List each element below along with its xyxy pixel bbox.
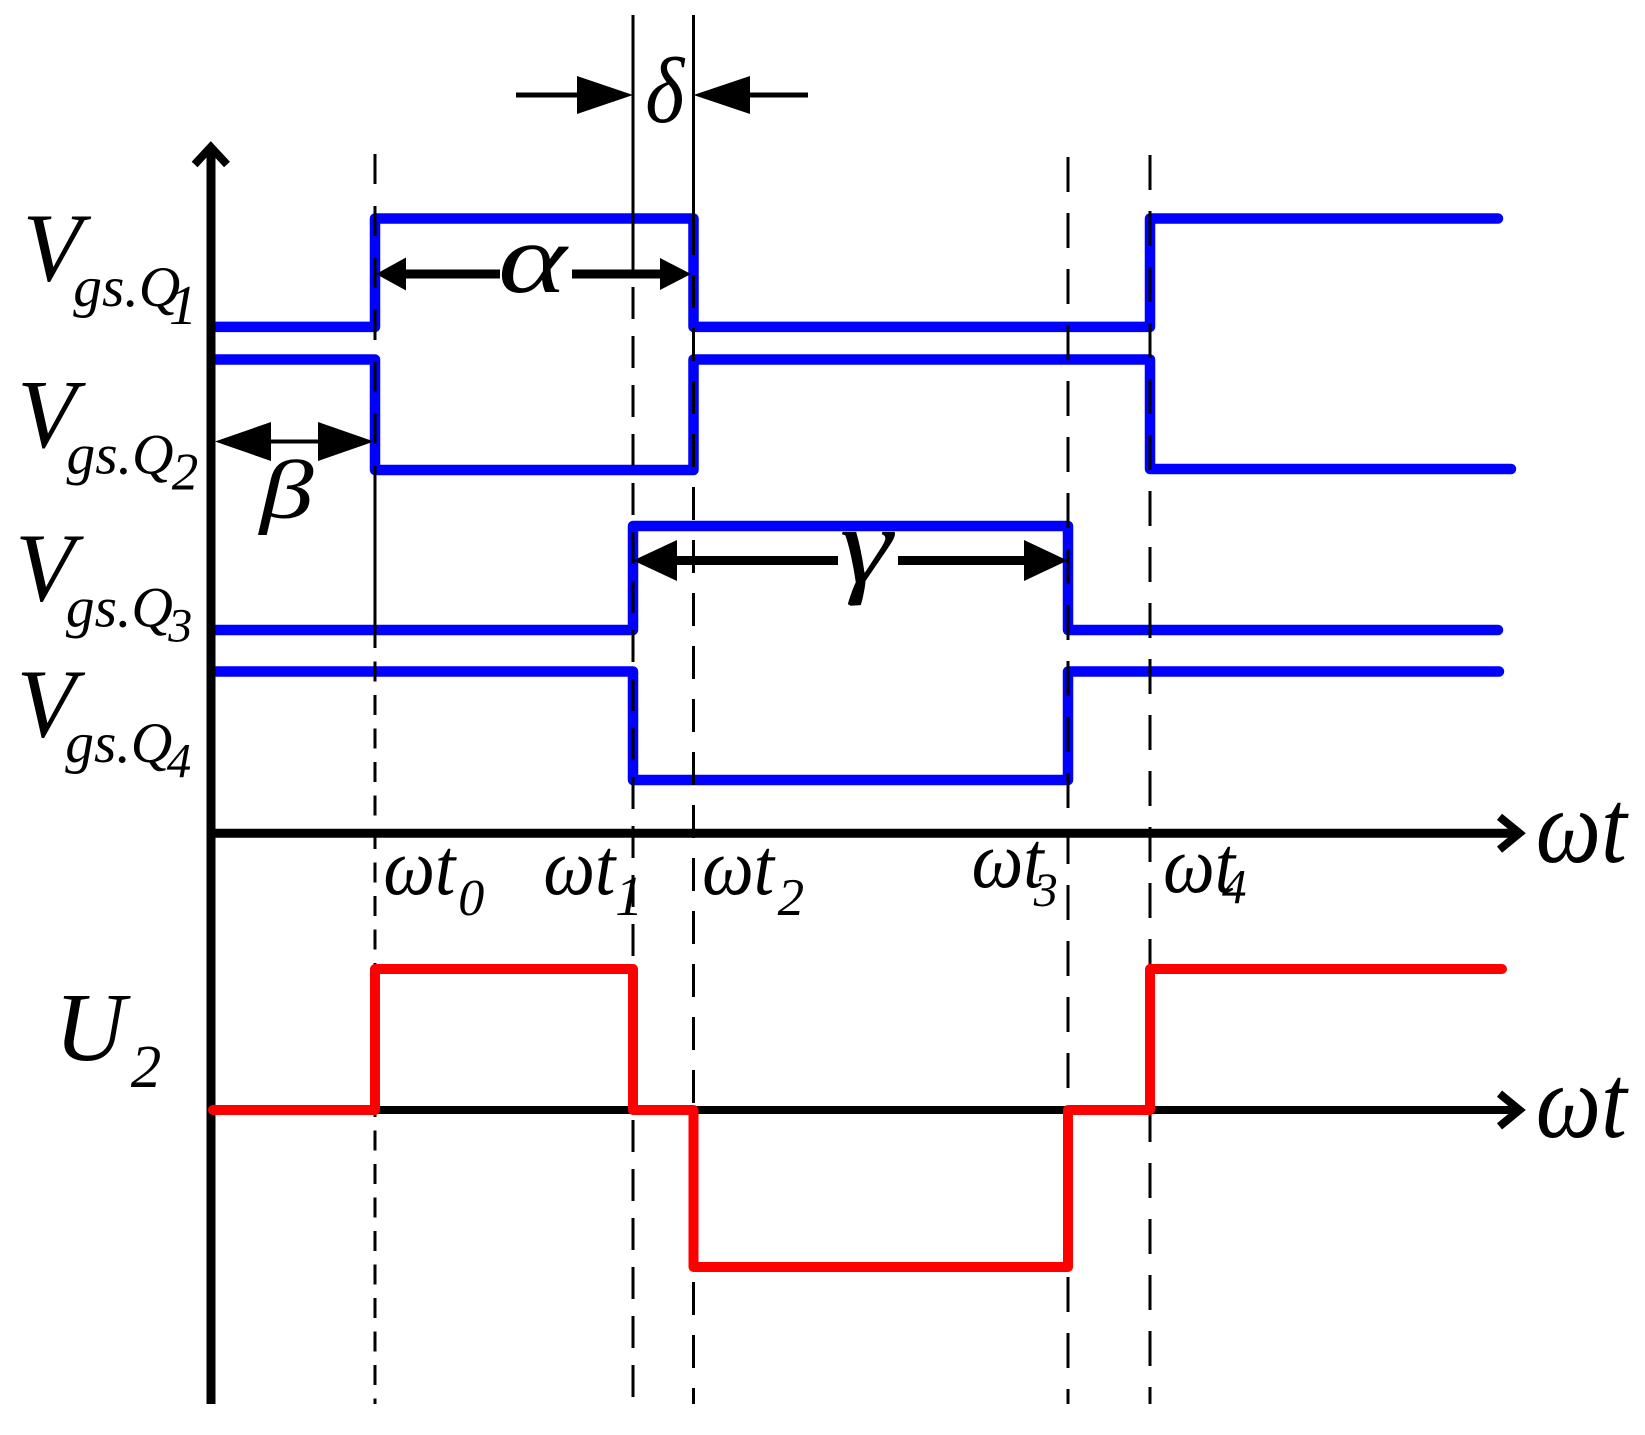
svg-text:β: β [258, 443, 314, 535]
svg-text:gs.Q: gs.Q [65, 712, 172, 775]
svg-text:1: 1 [615, 866, 643, 928]
svg-text:ωt: ωt [383, 822, 457, 912]
svg-text:γ: γ [840, 485, 896, 607]
svg-text:0: 0 [458, 870, 484, 927]
svg-text:ωt: ωt [1536, 1043, 1629, 1160]
svg-text:4: 4 [1222, 859, 1247, 914]
svg-text:4: 4 [167, 733, 192, 788]
svg-text:3: 3 [167, 599, 192, 652]
svg-text:2: 2 [172, 444, 199, 502]
svg-text:α: α [498, 205, 569, 314]
svg-text:U: U [55, 974, 132, 1082]
svg-text:ωt: ωt [702, 822, 776, 912]
svg-text:ωt: ωt [1536, 768, 1629, 885]
svg-text:ωt: ωt [543, 822, 617, 912]
svg-text:2: 2 [778, 869, 805, 927]
svg-text:2: 2 [131, 1034, 162, 1101]
svg-text:δ: δ [645, 40, 686, 143]
svg-text:1: 1 [169, 275, 197, 337]
svg-text:gs.Q: gs.Q [73, 256, 180, 319]
svg-text:gs.Q: gs.Q [67, 424, 174, 487]
svg-text:gs.Q: gs.Q [66, 577, 173, 640]
svg-text:3: 3 [1033, 864, 1058, 917]
